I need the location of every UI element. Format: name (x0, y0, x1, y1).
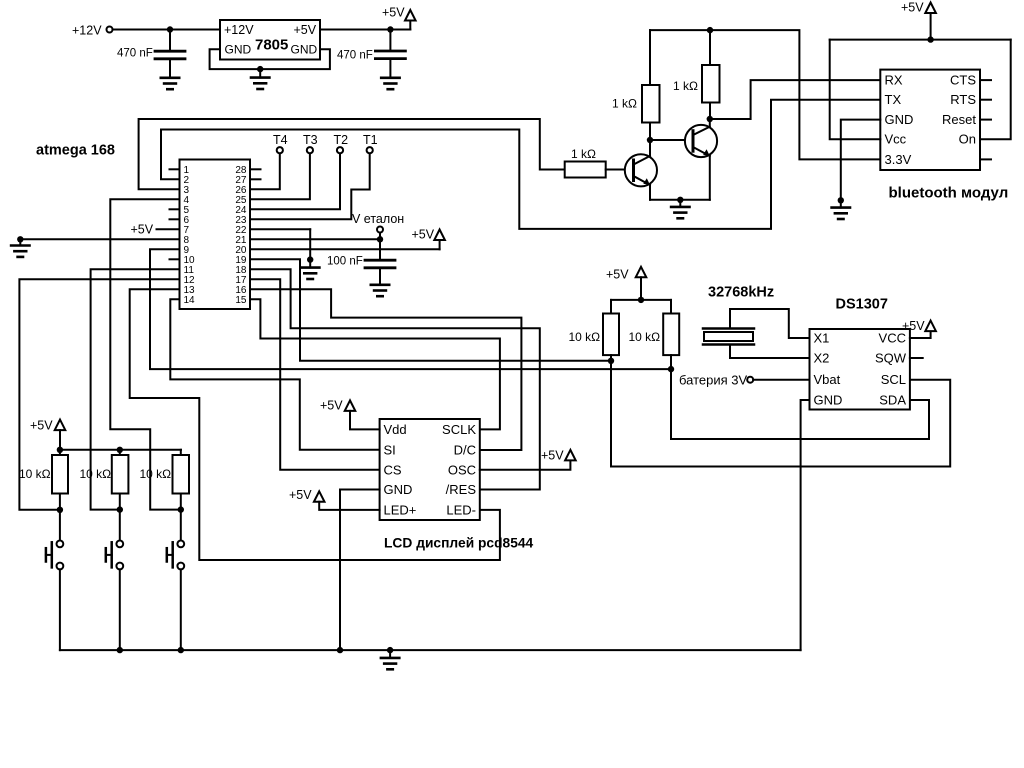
capacitor C1 470 nF input (155, 30, 185, 78)
resistor R2 label (80, 467, 112, 481)
junction bottom rail at S2 (117, 647, 123, 653)
pin number 12 label (184, 275, 196, 286)
crystal X1 32768kHz label (708, 285, 774, 301)
pin Reset stub (980, 119, 991, 121)
svg-text:+5V: +5V (541, 449, 564, 463)
svg-text:Vbat: Vbat (814, 372, 841, 387)
resistor R1 label (19, 467, 51, 481)
svg-text:D/C: D/C (454, 442, 476, 457)
wire pin 4 to button 3 node (110, 199, 181, 509)
junction R1 bottom node (57, 507, 63, 513)
regulator 7805 pin label GND right (291, 43, 318, 57)
DS1307 pin label VCC (879, 331, 906, 346)
svg-text:+5V: +5V (382, 6, 405, 20)
svg-text:1 kΩ: 1 kΩ (571, 147, 596, 161)
resistor R5 10 kOhm SDA pull-up (663, 314, 679, 356)
bluetooth pin label On (959, 132, 976, 147)
wire R2 bottom stem (119, 494, 121, 541)
wire pin 25 to T3 (250, 153, 310, 199)
pin RTS stub (980, 99, 991, 101)
junction R4 on SCL bus (608, 358, 614, 364)
LCD pin label SI (384, 442, 396, 457)
junction bottom rail at LCD GND (337, 647, 343, 653)
pin number 15 label (235, 295, 247, 306)
ground at pin 8 (11, 246, 29, 257)
wire +5V to bluetooth Vcc (830, 40, 881, 140)
pin number 3 label (184, 185, 190, 196)
svg-text:470 nF: 470 nF (117, 48, 153, 60)
power +5V arrow at pin 20 (412, 228, 445, 250)
junction pull-up rail at R2 (117, 447, 123, 453)
junction at AREF node (377, 236, 383, 242)
pin number 1 label (184, 165, 190, 176)
svg-text:+5V: +5V (606, 268, 629, 282)
wire R5 bottom stem (670, 355, 672, 369)
resistor R8 label (673, 79, 698, 93)
svg-text:T3: T3 (303, 133, 318, 147)
pushbutton S2 (106, 541, 123, 651)
pin 10 stub (170, 258, 180, 260)
junction R2 bottom node (117, 506, 123, 512)
svg-text:/RES: /RES (446, 482, 477, 497)
svg-text:On: On (959, 132, 976, 147)
LCD pin label Vdd (384, 422, 407, 437)
svg-text:1 kΩ: 1 kΩ (612, 97, 637, 111)
regulator 7805 value label (255, 37, 288, 54)
ground below 7805 (251, 78, 269, 89)
pin number 21 label (235, 235, 247, 246)
LCD pin label LED+ (384, 502, 417, 517)
LCD pin label D/C (454, 442, 476, 457)
wire pin 26 to T4 (250, 153, 280, 189)
resistor R5 label (629, 330, 661, 344)
wire 7805 output +5V (320, 29, 410, 31)
junction on 7805 GND bracket (257, 66, 263, 72)
wire R5 top stem (670, 300, 672, 314)
wire LCD OSC to +5V (480, 461, 571, 470)
DS1307 pin label X1 (814, 331, 830, 346)
svg-text:10 kΩ: 10 kΩ (569, 330, 601, 344)
svg-text:CS: CS (384, 462, 402, 477)
svg-text:GND: GND (885, 112, 914, 127)
LCD pin label GND (384, 482, 413, 497)
bluetooth pin label TX (885, 92, 902, 107)
svg-text:RTS: RTS (950, 92, 976, 107)
wire pin 9 to SDA bus (150, 249, 671, 369)
wire LCD GND to bottom rail (340, 490, 380, 651)
wire pin 23 to T1 (250, 153, 370, 219)
capacitor C3 100 nF (365, 239, 395, 284)
svg-text:15: 15 (235, 295, 247, 306)
node T3 terminal (303, 133, 318, 153)
junction on bluetooth GND stem (838, 197, 844, 203)
ground below C1 (161, 78, 179, 89)
node V etalon terminal (352, 212, 404, 239)
resistor R4 label (569, 330, 601, 344)
resistor R4 10 kOhm SCL pull-up (603, 314, 619, 356)
pushbutton S3 (167, 541, 184, 651)
svg-text:3.3V: 3.3V (885, 152, 912, 167)
wire R1 bottom stem (59, 494, 61, 541)
wire pin 8 GND (20, 239, 179, 245)
svg-text:+5V: +5V (412, 228, 435, 242)
wire 3.3V pull-up rail (650, 30, 880, 159)
IC U4 DS1307 name label (836, 297, 888, 313)
bluetooth pin label Vcc (885, 132, 907, 147)
wire transistor emitter ground rail (650, 199, 710, 201)
IC U2 atmega 168 name label (36, 143, 115, 159)
wire R6 to Q1 base (606, 169, 634, 171)
svg-text:OSC: OSC (448, 462, 476, 477)
wire pin 3 TXD to base resistor (139, 119, 565, 189)
LCD pin label SCLK (442, 422, 476, 437)
pin CTS stub (980, 79, 991, 81)
pin number 9 label (184, 245, 190, 256)
wire Q1 collector to Q2 base (650, 139, 693, 141)
junction bottom rail at S3 (178, 647, 184, 653)
wire pin 24 to T2 (250, 153, 340, 209)
IC U3 LCD name label (384, 536, 534, 551)
resistor R3 10 kOhm (173, 455, 190, 494)
pin number 22 label (235, 225, 247, 236)
wire R3 top stem (180, 450, 182, 455)
svg-text:+12V: +12V (224, 23, 254, 37)
wire pin 7 VCC (157, 228, 180, 230)
DS1307 pin label GND (814, 393, 843, 408)
svg-text:+5V: +5V (902, 319, 925, 333)
wire DS1307 GND to bottom rail (801, 400, 810, 650)
LCD pin label /RES (446, 482, 477, 497)
junction pull-up rail at R1 (57, 447, 63, 453)
pin number 19 label (235, 255, 247, 266)
power +5V arrow above I2C pull-ups (606, 267, 646, 300)
wire pin 14 to LCD SI (170, 299, 379, 450)
IC U2 atmega168 body (180, 160, 251, 310)
pin number 4 label (184, 195, 190, 206)
DS1307 pin label SCL (881, 372, 906, 387)
wire bottom rail ground stem (389, 650, 391, 658)
svg-text:CTS: CTS (950, 73, 976, 88)
regulator 7805 pin label +12V (224, 23, 254, 37)
svg-text:GND: GND (225, 43, 252, 57)
pin number 16 label (235, 285, 247, 296)
wire I2C pull-up +5V rail (611, 299, 671, 301)
IC U3 LCD pcd8544 body (380, 419, 480, 520)
svg-text:DS1307: DS1307 (836, 297, 888, 313)
pin 3.3V right stub (980, 158, 991, 160)
wire R1 top stem (59, 450, 61, 455)
junction at pin 8 ground (17, 236, 23, 242)
wire pin 20 AVCC (250, 248, 440, 250)
svg-text:батерия 3V: батерия 3V (679, 373, 748, 388)
pin number 25 label (235, 195, 247, 206)
regulator U1 7805 box (220, 20, 320, 60)
svg-text:10 kΩ: 10 kΩ (140, 467, 172, 481)
pin number 6 label (184, 215, 190, 226)
svg-text:10 kΩ: 10 kΩ (80, 467, 112, 481)
pin number 14 label (184, 295, 196, 306)
IC U4 DS1307 body (810, 329, 910, 410)
wire button pull-up +5V rail (60, 449, 181, 451)
svg-text:32768kHz: 32768kHz (708, 285, 774, 301)
resistor R3 label (140, 467, 172, 481)
module U5 bluetooth name label (889, 185, 1009, 202)
pin number 2 label (184, 175, 190, 186)
junction Q2 collector node (707, 116, 713, 122)
DS1307 pin label SDA (879, 393, 906, 408)
wire +12V input to 7805 (113, 29, 221, 31)
svg-text:+5V: +5V (320, 399, 343, 413)
resistor R7 1 kOhm Q1 collector pull-up (642, 85, 660, 123)
bluetooth pin label GND (885, 112, 914, 127)
svg-text:10 kΩ: 10 kΩ (629, 330, 661, 344)
wire Q2 collector to bluetooth RX (710, 80, 881, 119)
pin number 13 label (184, 285, 196, 296)
resistor R1 10 kOhm (52, 455, 68, 494)
junction bluetooth +5V rail (927, 36, 933, 42)
wire R8 to 3.3V rail (709, 30, 711, 65)
svg-text:TX: TX (885, 92, 902, 107)
pin SQW stub (910, 357, 923, 359)
svg-text:LED-: LED- (446, 502, 476, 517)
pushbutton S1 (46, 541, 63, 651)
svg-text:SCL: SCL (881, 372, 906, 387)
module U5 bluetooth body (880, 70, 980, 170)
wire R2 top stem (119, 450, 121, 455)
svg-text:+5V: +5V (289, 488, 312, 502)
power +5V arrow above button pull-ups (30, 419, 65, 450)
svg-text:14: 14 (184, 295, 196, 306)
wire bottom ground rail (60, 649, 801, 651)
svg-text:+12V: +12V (72, 24, 102, 38)
svg-text:+5V: +5V (294, 23, 317, 37)
capacitor C3 label 100 nF (327, 256, 363, 268)
ground below C3 (371, 285, 389, 296)
junction R3 bottom node (178, 506, 184, 512)
svg-text:+5V: +5V (30, 419, 53, 433)
LCD pin label CS (384, 462, 402, 477)
wire battery to DS1307 Vbat (753, 379, 809, 381)
junction on +12V rail at C1 (167, 26, 173, 32)
svg-text:V еталон: V еталон (352, 212, 404, 226)
pin number 24 label (235, 205, 247, 216)
power +5V arrow at LCD Vdd (320, 399, 380, 430)
ground on bottom rail (381, 658, 399, 669)
svg-text:1 kΩ: 1 kΩ (673, 79, 698, 93)
bluetooth pin label RTS (950, 92, 976, 107)
pin number 23 label (235, 215, 247, 226)
resistor R6 label (571, 147, 596, 161)
svg-text:SDA: SDA (879, 393, 906, 408)
node T2 terminal (334, 133, 349, 153)
wire 7805 GND bracket (210, 49, 330, 69)
wire SDA bus to DS1307 SDA (671, 369, 929, 439)
svg-text:+5V: +5V (901, 1, 924, 15)
junction I2C pull-up rail (638, 297, 644, 303)
DS1307 pin label SQW (875, 351, 907, 366)
pin number 18 label (235, 265, 247, 276)
wire bluetooth +5V rail (830, 39, 1011, 41)
wire pin 17 to LCD CS (250, 279, 380, 470)
pin number 20 label (235, 245, 247, 256)
svg-text:100 nF: 100 nF (327, 256, 363, 268)
wire +5V to bluetooth On (980, 40, 1011, 140)
wire pin 16 to LCD D/C (250, 289, 521, 450)
bluetooth pin label RX (885, 73, 903, 88)
pin number 27 label (235, 175, 247, 186)
svg-text:atmega 168: atmega 168 (36, 143, 115, 159)
svg-text:470 nF: 470 nF (337, 49, 373, 61)
wire pin 22 GND (250, 229, 310, 267)
pin number 17 label (235, 275, 247, 286)
svg-text:GND: GND (291, 43, 318, 57)
capacitor C2 470 nF output (375, 30, 405, 78)
power +5V arrow at bluetooth (901, 1, 936, 40)
LCD pin label LED- (446, 502, 476, 517)
svg-text:GND: GND (814, 393, 843, 408)
wire pin 11 to button 2 node (91, 269, 180, 509)
wire pin 21 AREF (250, 238, 380, 240)
bluetooth pin label CTS (950, 73, 976, 88)
wire R4 bottom stem (610, 355, 612, 361)
wire pin 13 to LCD LED- (130, 289, 500, 560)
junction Q1 collector node (647, 137, 653, 143)
pin 27 stub (250, 178, 261, 180)
svg-text:bluetooth модул: bluetooth модул (889, 185, 1009, 202)
svg-text:SQW: SQW (875, 351, 907, 366)
power +5V arrow at 7805 output (382, 6, 416, 30)
svg-text:T4: T4 (273, 133, 288, 147)
svg-text:LED+: LED+ (384, 502, 417, 517)
wire pin 19 SCL bus (250, 259, 611, 361)
wire pin 12 to button 1 node (19, 279, 179, 510)
pin 5 stub (170, 208, 180, 210)
wire bluetooth GND (841, 120, 881, 208)
pin number 7 label (184, 225, 190, 236)
junction on +5V output at C2 (387, 26, 393, 32)
resistor R2 10 kOhm (112, 455, 129, 494)
power +5V arrow at DS1307 VCC (902, 319, 936, 333)
ground below transistors (671, 207, 689, 218)
svg-text:X2: X2 (814, 351, 830, 366)
ground below bluetooth (832, 208, 850, 219)
capacitor C2 label 470 nF (337, 49, 373, 61)
capacitor C1 label 470 nF (117, 48, 153, 60)
power +5V label at pin 7 (131, 223, 154, 237)
junction on pin 22 ground wire (307, 256, 313, 262)
wire crystal to DS1307 X1 (730, 309, 810, 338)
power +5V arrow at LCD OSC (541, 449, 576, 463)
pin number 10 label (184, 255, 196, 266)
svg-text:+5V: +5V (131, 223, 154, 237)
transistor Q1 NPN (625, 140, 657, 200)
svg-text:Vcc: Vcc (885, 132, 907, 147)
pin number 5 label (184, 205, 190, 216)
wire 7805 GND stem (259, 69, 261, 78)
wire SCL bus to DS1307 SCL (611, 361, 950, 467)
svg-text:7805: 7805 (255, 37, 288, 54)
wire emitter rail ground stem (679, 200, 681, 207)
svg-text:Reset: Reset (942, 112, 976, 127)
svg-text:X1: X1 (814, 331, 830, 346)
regulator 7805 pin label GND left (225, 43, 252, 57)
resistor R7 label (612, 97, 637, 111)
pin 1 stub (170, 168, 180, 170)
resistor R6 1 kOhm base (565, 162, 606, 178)
ground at pin 22 (301, 268, 319, 279)
node +12V input terminal (72, 24, 113, 38)
svg-text:10 kΩ: 10 kΩ (19, 467, 51, 481)
wire pin 18 to LCD /RES (250, 269, 540, 489)
node T4 terminal (273, 133, 288, 153)
wire R4 top stem (610, 300, 612, 314)
svg-text:LCD дисплей pcd8544: LCD дисплей pcd8544 (384, 536, 534, 551)
wire crystal to DS1307 X2 (730, 345, 810, 359)
pin number 11 label (184, 265, 195, 276)
node battery 3V terminal (679, 373, 753, 388)
transistor Q2 NPN (685, 119, 717, 200)
regulator 7805 pin label +5V (294, 23, 317, 37)
LCD pin label OSC (448, 462, 476, 477)
svg-text:T1: T1 (363, 133, 378, 147)
wire DS1307 VCC to +5V (910, 331, 931, 338)
wire R7 to Q1 collector (649, 123, 651, 141)
power +5V arrow at LCD LED+ (289, 488, 380, 510)
svg-text:GND: GND (384, 482, 413, 497)
DS1307 pin label X2 (814, 351, 830, 366)
pin number 28 label (235, 165, 247, 176)
pin 6 stub (170, 218, 180, 220)
resistor R8 1 kOhm Q2 collector pull-up (702, 65, 720, 103)
svg-text:SI: SI (384, 442, 396, 457)
ground below C2 (381, 78, 399, 89)
svg-text:Vdd: Vdd (384, 422, 407, 437)
wire R8 to Q2 collector (709, 103, 711, 120)
bluetooth pin label Reset (942, 112, 976, 127)
DS1307 pin label Vbat (814, 372, 841, 387)
junction bottom rail at ground symbol (387, 647, 393, 653)
junction 3.3V rail at R8 (707, 27, 713, 33)
svg-text:T2: T2 (334, 133, 349, 147)
crystal X1 32.768 kHz (703, 329, 754, 345)
junction R5 on SDA bus (668, 366, 674, 372)
svg-text:SCLK: SCLK (442, 422, 476, 437)
wire R7 to 3.3V rail (649, 30, 651, 85)
pin number 8 label (184, 235, 190, 246)
bluetooth pin label 3.3V (885, 152, 912, 167)
pin number 26 label (235, 185, 247, 196)
wire pin 2 RXD to bluetooth TX (161, 100, 880, 229)
wire R3 bottom stem (180, 494, 182, 541)
pin 28 stub (250, 168, 261, 170)
junction emitter ground rail (677, 197, 683, 203)
wire pin 15 to LCD SCLK (250, 299, 500, 429)
node T1 terminal (363, 133, 378, 153)
svg-text:RX: RX (885, 73, 903, 88)
